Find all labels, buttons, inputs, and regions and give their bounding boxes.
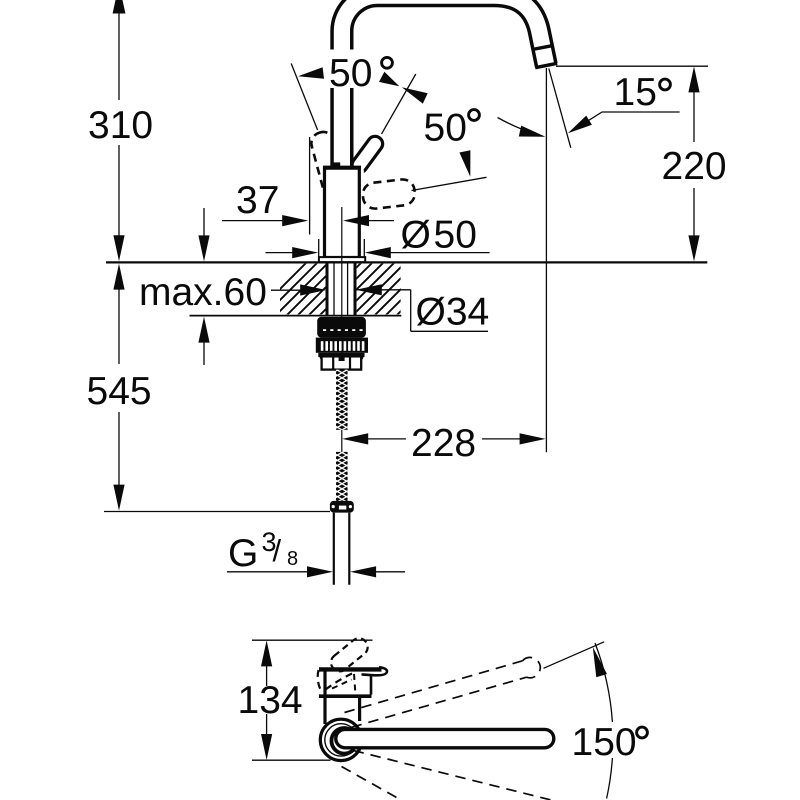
svg-text:228: 228 xyxy=(411,422,476,465)
arrow angle 50-1 left xyxy=(298,67,324,78)
plan body left edge xyxy=(323,671,326,724)
arrow 37 right xyxy=(282,215,308,226)
extension line handle front xyxy=(309,137,311,235)
svg-text:220: 220 xyxy=(662,145,727,188)
plan lever dashed outline xyxy=(328,635,372,675)
spout aerator band xyxy=(532,46,552,50)
handle dashed up-left position xyxy=(309,130,348,198)
dimension 545 line xyxy=(118,276,120,364)
plan cartridge collar xyxy=(319,694,372,698)
svg-text:8: 8 xyxy=(287,548,298,570)
dimension 220 extension line xyxy=(556,65,708,67)
svg-text:G: G xyxy=(228,532,258,575)
arrow 228 right xyxy=(520,433,546,444)
dimension G3/8 line xyxy=(227,571,311,573)
angle ext line dashed-up handle xyxy=(291,64,317,131)
svg-text:Ø: Ø xyxy=(401,214,431,257)
svg-text:Ø34: Ø34 xyxy=(416,291,490,334)
spout outlet centerline xyxy=(545,68,547,452)
spout tip cap xyxy=(535,63,557,67)
arrow 545 top xyxy=(113,264,124,290)
plan lever boss edge xyxy=(370,676,373,695)
svg-text:310: 310 xyxy=(88,104,153,147)
dimension 228 line xyxy=(364,438,406,440)
dimension max.60 lower line xyxy=(203,329,205,365)
dimension line base diameter xyxy=(266,252,300,254)
arrow max60 up xyxy=(198,317,209,343)
dimension 134 top extension xyxy=(252,639,373,641)
dimension 134 line xyxy=(266,654,268,686)
plan body right edge xyxy=(358,698,361,721)
base plate xyxy=(319,257,365,262)
plan swivel outer ring xyxy=(320,719,361,760)
knockout behind 50deg label xyxy=(327,50,356,89)
plan spout bar xyxy=(345,728,545,750)
svg-text:50: 50 xyxy=(329,52,372,95)
arrow G38 right xyxy=(350,566,376,577)
pivot tab xyxy=(332,162,340,167)
arrow 228 left xyxy=(342,433,368,444)
angle ext line lowered handle xyxy=(412,177,487,190)
arrow angle 50-2 lower xyxy=(459,150,470,177)
mounting comb block xyxy=(316,338,368,353)
arrow 545 bottom xyxy=(113,485,124,511)
spout swung down dashed xyxy=(354,751,552,800)
arrow base dia left xyxy=(292,247,318,258)
15 deg leader xyxy=(573,112,680,131)
countertop section top line xyxy=(106,261,707,263)
plan lever inner dashes xyxy=(332,680,352,689)
dimension 310 line xyxy=(118,12,120,100)
arrow 15deg arc xyxy=(519,126,546,137)
extension line base left xyxy=(318,239,320,257)
dimension 134 bottom extension xyxy=(252,759,331,761)
faucet body xyxy=(325,168,360,258)
svg-text:/: / xyxy=(273,533,282,568)
svg-text:max.60: max.60 xyxy=(139,271,267,314)
plan swivel inner ring xyxy=(325,724,357,756)
arrow 15deg leader xyxy=(568,116,592,134)
angle ext line solid handle xyxy=(382,74,416,134)
arrow 134 top xyxy=(261,640,272,666)
svg-text:37: 37 xyxy=(236,179,279,222)
faucet shank xyxy=(326,263,329,316)
arrow 220 top xyxy=(688,66,699,92)
arrow 310 top (clipped) xyxy=(113,0,126,14)
swivel arc 150 xyxy=(595,643,612,722)
arrow 150 arc xyxy=(593,647,607,677)
spout swung up dashed xyxy=(342,657,552,800)
arrow max60 down xyxy=(198,235,209,261)
faucet centerline xyxy=(341,207,343,452)
arrow 220 bottom xyxy=(688,235,699,261)
handle solid position xyxy=(349,133,385,175)
dimension 220 line xyxy=(693,79,695,142)
plan lever tongue xyxy=(362,667,387,675)
faucet spout tube xyxy=(342,0,546,170)
dimension 37 line xyxy=(222,220,288,222)
plan lever bar xyxy=(319,667,382,671)
mounting hook row xyxy=(318,353,364,357)
arrow 310 bottom xyxy=(113,235,124,261)
svg-text:134: 134 xyxy=(238,679,303,722)
spout root collar xyxy=(331,728,354,754)
svg-text:50: 50 xyxy=(434,214,477,257)
supply nut xyxy=(330,501,354,513)
arrow Ø34 right xyxy=(356,284,382,295)
svg-text:15: 15 xyxy=(614,71,657,114)
arrow G38 left xyxy=(307,566,333,577)
15 deg arc xyxy=(498,118,544,137)
countertop section bottom line xyxy=(190,315,402,317)
dimension max.60 upper line xyxy=(203,208,205,249)
svg-text:545: 545 xyxy=(87,370,152,413)
Ø34 leader bend xyxy=(410,290,412,332)
arrow Ø34 left xyxy=(300,284,326,295)
dimension 545 bottom extension line xyxy=(104,511,330,513)
svg-text:150: 150 xyxy=(572,721,637,764)
swivel ext line xyxy=(544,642,605,669)
handle dashed lowered position xyxy=(362,178,417,210)
arrow 37 left-point xyxy=(343,215,369,226)
dimension max.60 leader / Ø34 line xyxy=(271,289,303,291)
arrow 134 bottom xyxy=(261,734,272,760)
mounting stabilizer block xyxy=(317,317,366,338)
mounting bracket xyxy=(322,356,362,369)
water stream 15 deg line xyxy=(549,69,571,148)
arrow angle 50-1 right xyxy=(379,72,399,87)
arrow base dia right xyxy=(365,247,391,258)
arrow angle 50-2 upper xyxy=(402,87,428,103)
supply tube xyxy=(333,513,335,585)
extension line base right xyxy=(363,239,365,257)
svg-text:50: 50 xyxy=(424,107,467,150)
